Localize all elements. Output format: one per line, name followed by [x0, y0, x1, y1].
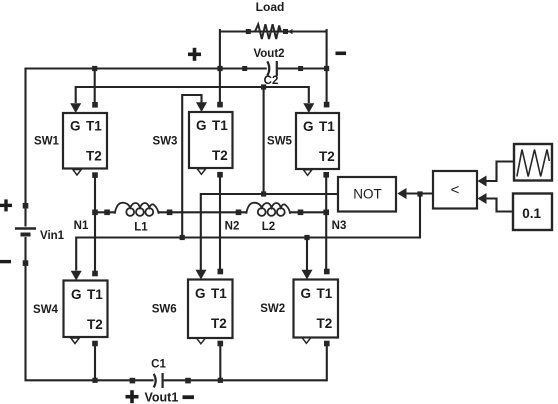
SW5 T1 port	[324, 102, 330, 108]
SW5 T2 port	[323, 172, 329, 178]
wire constant to comparator	[487, 199, 514, 212]
svg-text:T1: T1	[211, 286, 227, 301]
battery plus	[0, 199, 12, 211]
SW4 T2 port	[92, 341, 98, 347]
wire SW1 T2 to SW4 T1	[94, 175, 96, 274]
wire load left drop	[219, 29, 221, 105]
svg-text:NOT: NOT	[353, 187, 382, 202]
switch SW1	[63, 113, 107, 169]
load left terminal	[246, 29, 251, 34]
svg-text:Vout2: Vout2	[253, 48, 284, 60]
C2 left terminal	[242, 66, 247, 71]
wire load right drop to SW5 T1	[326, 29, 328, 105]
wire SW5 T2 to SW2 T1	[325, 175, 327, 272]
svg-text:G: G	[71, 287, 82, 302]
svg-text:SW2: SW2	[260, 303, 285, 315]
SW2 bottom triangle	[302, 338, 311, 344]
wire NOT output horizontal	[201, 194, 338, 271]
svg-text:T2: T2	[211, 316, 227, 331]
wire N1 to L1	[95, 211, 116, 213]
svg-text:C1: C1	[151, 359, 166, 371]
node junction bottom rail SW6	[218, 378, 223, 383]
svg-text:T2: T2	[319, 149, 335, 164]
node junction NOT output line	[261, 191, 266, 196]
wire SW2 T2 drop	[326, 345, 328, 381]
node junction bottom rail SW4	[92, 378, 97, 383]
C1 left terminal	[130, 378, 136, 384]
capacitor C1 right plate	[162, 373, 164, 388]
wire L1 to L2 N2 rail	[159, 211, 248, 213]
SW2 T2 port	[324, 341, 330, 347]
svg-text:G: G	[303, 119, 314, 134]
minus sign top	[336, 52, 347, 56]
wire bottom rail right	[164, 379, 327, 381]
node junction top rail at SW1 T1	[92, 66, 97, 71]
node junction gate line C2	[261, 84, 266, 89]
comparator input arrow 2	[478, 193, 487, 204]
capacitor C1 left plate	[154, 374, 156, 388]
svg-text:T1: T1	[317, 286, 333, 301]
wire left vertical battery bottom	[24, 237, 26, 380]
svg-text:G: G	[195, 286, 206, 301]
SW6 T1 port	[218, 269, 224, 275]
load right terminal	[283, 29, 288, 34]
wire SW2 gate drop	[306, 238, 308, 271]
wire sawtooth to comparator	[487, 162, 515, 182]
L2 right terminal	[298, 210, 304, 216]
SW1 T1 port	[92, 102, 98, 108]
switch SW5	[296, 113, 339, 169]
switch SW3	[189, 112, 233, 168]
capacitor C2 left plate	[267, 61, 269, 75]
wire top rail right	[278, 67, 327, 69]
capacitor C2 right plate	[276, 61, 278, 76]
wire load line	[220, 30, 327, 32]
SW5 G arrow	[303, 103, 314, 113]
gate NOT U1	[338, 177, 396, 212]
SW4 T1 port	[92, 271, 98, 277]
load resistor R zigzag	[255, 24, 281, 39]
plus sign top	[188, 48, 201, 61]
SW1 bottom triangle	[73, 170, 82, 176]
svg-text:G: G	[196, 118, 207, 133]
wire SW3 T2 to SW6 T1	[219, 175, 221, 272]
svg-text:Vout1: Vout1	[145, 391, 179, 404]
wire top rail left	[25, 67, 267, 69]
node junction comparator out	[417, 191, 422, 196]
SW3 bottom triangle	[197, 169, 206, 175]
L1 left terminal	[104, 210, 110, 216]
load arrowhead	[288, 29, 293, 34]
SW1 G arrow	[70, 103, 81, 113]
SW3 T1 port	[217, 102, 223, 108]
SW1 T2 port	[92, 172, 98, 178]
SW2 G arrow	[302, 270, 313, 280]
svg-text:SW1: SW1	[34, 136, 60, 148]
L2 left terminal	[236, 210, 242, 216]
svg-text:G: G	[70, 119, 81, 134]
plus sign bottom	[126, 390, 139, 403]
comparator U2	[433, 171, 477, 209]
SW3 T2 port	[217, 172, 223, 178]
C1 right terminal	[185, 378, 191, 384]
svg-text:G: G	[301, 286, 312, 301]
svg-text:N1: N1	[74, 220, 89, 232]
svg-text:N3: N3	[332, 220, 347, 232]
svg-text:0.1: 0.1	[522, 206, 541, 221]
svg-text:L2: L2	[262, 221, 275, 233]
NOT input arrow	[397, 188, 406, 199]
wire comparator to NOT	[407, 192, 434, 194]
svg-text:N2: N2	[225, 221, 240, 233]
node N3 junction	[323, 210, 329, 216]
battery minus	[0, 260, 11, 263]
SW6 bottom triangle	[197, 338, 206, 344]
svg-text:L1: L1	[134, 222, 148, 234]
SW5 bottom triangle	[303, 170, 312, 176]
svg-text:T1: T1	[86, 119, 102, 134]
wire L2 to N3	[290, 211, 326, 213]
svg-text:SW3: SW3	[153, 136, 178, 148]
node junction top rail at SW3 T1	[217, 66, 222, 71]
wire NOT output vertical link	[263, 87, 265, 194]
SW3 G arrow	[196, 102, 207, 112]
inductor L2	[246, 203, 290, 216]
C2 right terminal	[298, 66, 303, 71]
node junction top rail at SW5 T1	[324, 66, 329, 71]
wire SW4 T2 drop	[94, 345, 96, 380]
wire SW1 T1 drop	[94, 69, 96, 105]
wire gate rail comparator output	[76, 194, 420, 271]
svg-text:SW4: SW4	[33, 304, 59, 316]
wire bottom rail left	[25, 379, 154, 381]
SW6 G arrow	[196, 270, 207, 280]
comparator input arrow 1	[478, 176, 487, 187]
svg-text:T2: T2	[317, 316, 333, 331]
svg-text:SW5: SW5	[267, 136, 293, 148]
sawtooth source block	[514, 144, 552, 181]
svg-text:Load: Load	[256, 0, 285, 14]
wire SW6 T2 drop	[219, 345, 221, 380]
SW2 T1 port	[324, 269, 330, 275]
svg-text:T1: T1	[319, 119, 335, 134]
wire SW3 gate hook	[182, 95, 201, 238]
switch SW4	[64, 281, 108, 338]
SW4 bottom triangle	[71, 338, 80, 344]
SW4 G arrow	[71, 271, 82, 281]
node junction gate rail SW3	[180, 235, 185, 240]
SW6 T2 port	[218, 341, 224, 347]
wire left vertical battery top	[24, 68, 26, 227]
switch SW2	[294, 280, 339, 338]
svg-text:Vin1: Vin1	[40, 230, 65, 242]
L1 right terminal	[167, 210, 173, 216]
node junction gate rail SW2	[304, 235, 309, 240]
switch SW6	[188, 280, 233, 339]
inductor L1	[115, 203, 159, 216]
minus sign bottom	[183, 395, 195, 399]
constant 0.1 block	[513, 194, 552, 231]
svg-text:T2: T2	[87, 317, 103, 332]
svg-text:T2: T2	[86, 149, 102, 164]
wire gate line SW1-SW5	[76, 87, 309, 103]
battery Vin1	[15, 203, 36, 266]
svg-text:<: <	[451, 182, 460, 199]
svg-text:SW6: SW6	[152, 303, 177, 315]
svg-text:T1: T1	[87, 287, 103, 302]
svg-text:T1: T1	[212, 118, 228, 133]
node N1 junction	[92, 210, 98, 216]
svg-text:T2: T2	[212, 148, 228, 163]
